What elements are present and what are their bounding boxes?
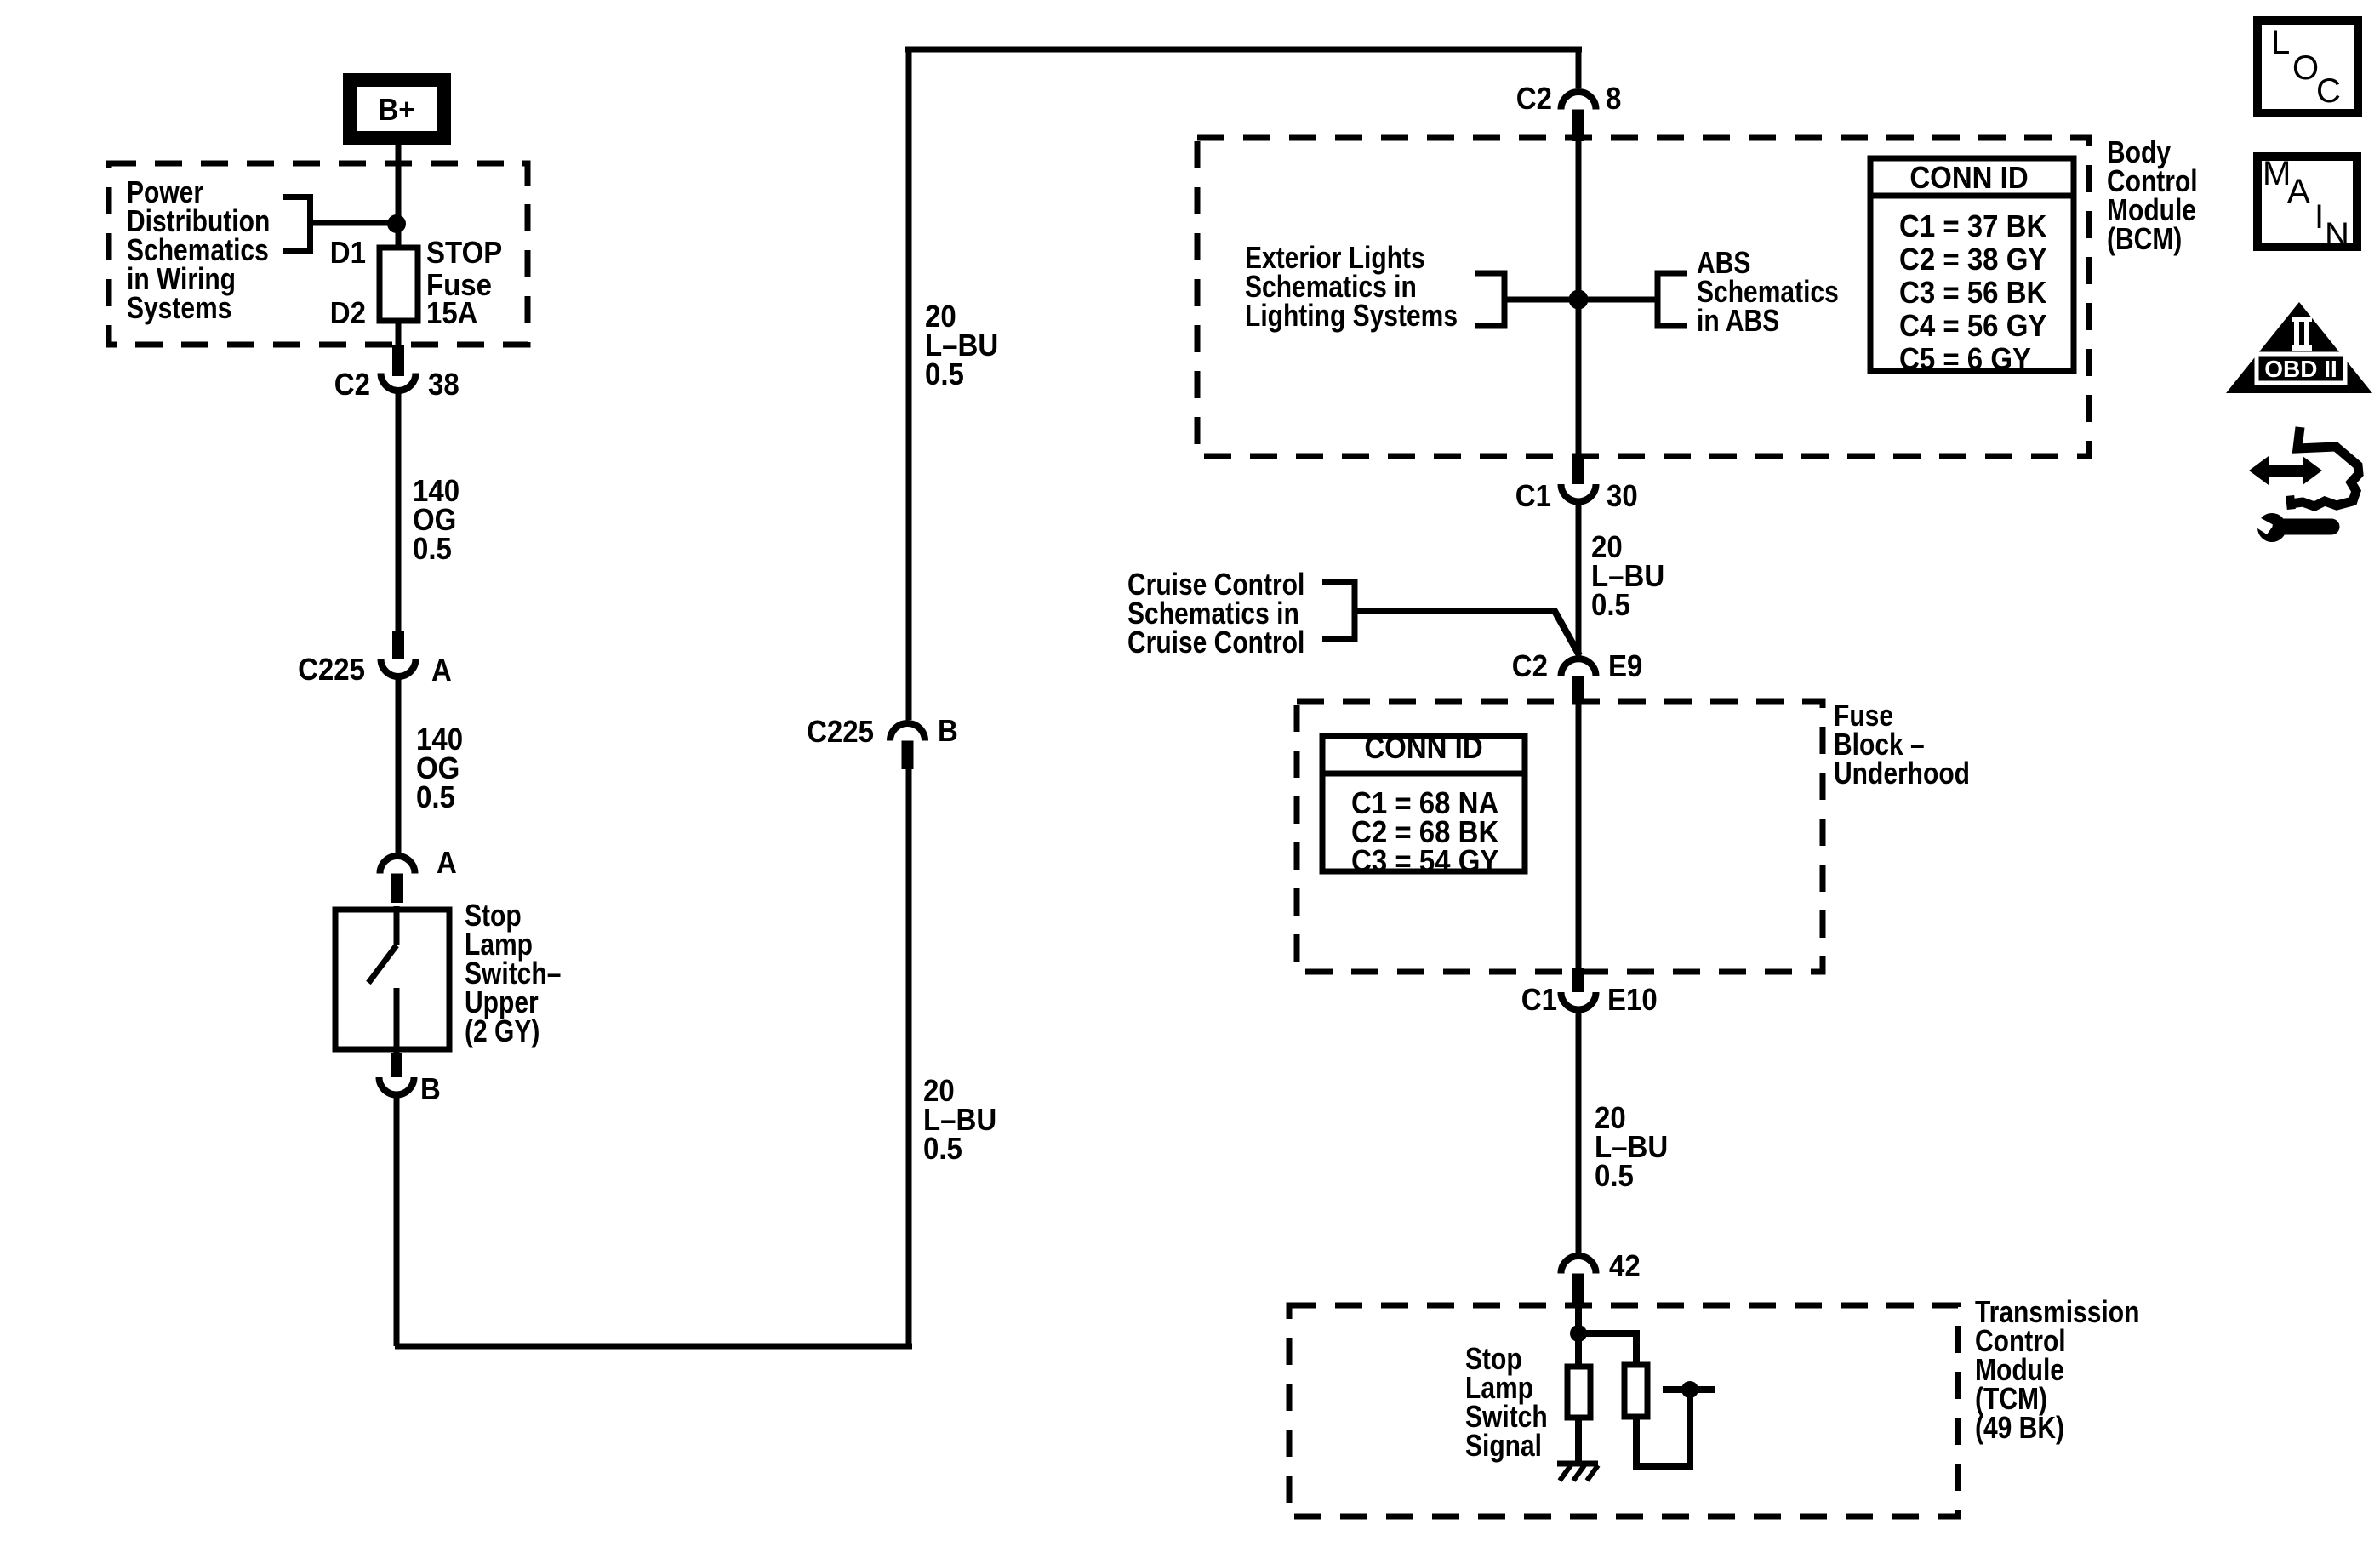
svg-text:Signal: Signal	[1465, 1428, 1542, 1463]
svg-text:Cruise Control: Cruise Control	[1127, 625, 1304, 659]
svg-text:C3 = 54 GY: C3 = 54 GY	[1351, 843, 1498, 878]
svg-text:0.5: 0.5	[413, 531, 452, 566]
svg-text:A: A	[431, 653, 452, 688]
svg-text:CONN ID: CONN ID	[1909, 160, 2028, 195]
svg-text:C1: C1	[1521, 982, 1557, 1017]
svg-text:30: 30	[1607, 478, 1638, 513]
svg-text:38: 38	[428, 367, 459, 402]
svg-text:0.5: 0.5	[923, 1131, 962, 1166]
svg-text:(BCM): (BCM)	[2107, 221, 2182, 256]
svg-text:0.5: 0.5	[1595, 1158, 1634, 1193]
svg-text:C4 = 56 GY: C4 = 56 GY	[1899, 308, 2046, 343]
svg-text:OBD II: OBD II	[2264, 356, 2337, 382]
svg-text:I: I	[2314, 198, 2324, 236]
svg-text:CONN ID: CONN ID	[1364, 730, 1482, 765]
svg-text:C1 = 37 BK: C1 = 37 BK	[1899, 208, 2046, 243]
svg-text:0.5: 0.5	[925, 357, 964, 391]
svg-text:Lighting Systems: Lighting Systems	[1245, 298, 1458, 333]
svg-text:(2 GY): (2 GY)	[465, 1013, 539, 1048]
svg-text:8: 8	[1606, 81, 1621, 116]
svg-text:in ABS: in ABS	[1697, 303, 1779, 338]
svg-text:42: 42	[1609, 1248, 1641, 1283]
svg-text:C225: C225	[807, 714, 874, 749]
svg-text:D2: D2	[330, 295, 366, 330]
svg-text:B+: B+	[378, 92, 414, 127]
svg-text:N: N	[2325, 216, 2349, 254]
svg-text:(49 BK): (49 BK)	[1975, 1410, 2064, 1445]
svg-text:D1: D1	[330, 235, 366, 270]
svg-text:Systems: Systems	[127, 290, 231, 325]
svg-text:C2: C2	[1516, 81, 1552, 116]
svg-text:C2: C2	[334, 367, 370, 402]
svg-text:0.5: 0.5	[416, 779, 455, 814]
svg-text:C1: C1	[1515, 478, 1551, 513]
svg-text:STOP: STOP	[426, 235, 502, 270]
svg-text:B: B	[938, 713, 958, 748]
svg-text:A: A	[437, 845, 457, 880]
svg-text:C225: C225	[298, 652, 365, 687]
svg-text:O: O	[2292, 49, 2319, 87]
svg-text:Underhood: Underhood	[1834, 756, 1970, 791]
svg-text:15A: 15A	[426, 295, 478, 330]
svg-text:E9: E9	[1608, 648, 1642, 683]
svg-text:A: A	[2287, 173, 2310, 210]
svg-text:C2 = 38 GY: C2 = 38 GY	[1899, 242, 2046, 277]
svg-text:E10: E10	[1607, 982, 1658, 1017]
svg-text:0.5: 0.5	[1591, 587, 1630, 622]
svg-text:C2: C2	[1512, 648, 1548, 683]
svg-text:C3 = 56 BK: C3 = 56 BK	[1899, 275, 2046, 310]
svg-text:B: B	[420, 1071, 441, 1106]
svg-text:C: C	[2316, 72, 2341, 110]
svg-text:C5 = 6 GY: C5 = 6 GY	[1899, 341, 2031, 376]
svg-text:L: L	[2271, 24, 2290, 61]
